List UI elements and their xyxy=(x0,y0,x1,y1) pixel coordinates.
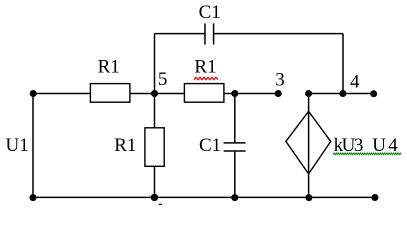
node 0 label (cut off at bottom edge) xyxy=(159,204,162,207)
wire: top branch right corner down to node 4 xyxy=(342,34,344,94)
junction dot: diamond top xyxy=(305,90,312,97)
wire: left branch vertical (U1 port) xyxy=(32,94,34,198)
wire: node 5 up to top branch xyxy=(154,34,156,94)
svg-text:C1: C1 xyxy=(199,2,221,23)
junction dot: C1 tap xyxy=(231,90,238,97)
capacitor C1 (top horizontal) xyxy=(205,23,214,44)
wire: junction down to C1 (vertical) xyxy=(234,94,236,143)
wire: middle row right, diamond top to node 4 to right terminal xyxy=(309,93,374,95)
wire: through dependent source, middle row to bottom rail xyxy=(308,94,310,198)
wire: node 5 down to R1 (vertical) xyxy=(154,94,156,128)
resistor R1 (vertical) xyxy=(145,128,164,167)
wire: top branch, C1 to right corner xyxy=(214,33,343,35)
junction dot: bottom rail / R1 xyxy=(151,194,158,201)
spellcheck squiggle under R1 (middle) xyxy=(194,77,218,80)
junction dot: right terminal (U4 +) xyxy=(370,90,377,97)
junction dot: left bottom (U1 -) xyxy=(30,194,37,201)
svg-text:5: 5 xyxy=(158,69,168,90)
svg-text:4: 4 xyxy=(350,71,360,92)
wire: C1 (vertical) to bottom rail xyxy=(234,152,236,198)
svg-text:U1: U1 xyxy=(6,135,29,156)
svg-text:C1: C1 xyxy=(199,135,221,156)
svg-text:R1: R1 xyxy=(98,56,120,77)
svg-text:3: 3 xyxy=(275,70,285,91)
wire: top branch, left segment to C1 xyxy=(155,33,205,35)
junction dot: node 5 xyxy=(151,90,158,97)
wire: R1 (vertical) to bottom rail xyxy=(154,166,156,197)
svg-text:R1: R1 xyxy=(114,135,136,156)
junction dot: node 4 xyxy=(339,90,346,97)
capacitor C1 (vertical) xyxy=(224,143,246,151)
wire: bottom rail xyxy=(33,196,375,198)
dependent source kU3 (diamond) xyxy=(286,111,331,174)
junction dot: bottom rail / source xyxy=(305,194,312,201)
wire: middle row, R1 to node 5 to R1 (mid) xyxy=(130,93,185,95)
wire: middle row, left node to R1 xyxy=(33,93,90,95)
junction dot: left top (U1 +) xyxy=(30,90,37,97)
resistor R1 (left horizontal) xyxy=(90,84,129,103)
wire: middle row, R1 (mid) to junction to node 3 xyxy=(224,93,278,95)
grammar squiggle under kU3 U4 xyxy=(333,153,401,155)
junction dot: bottom rail / C1 xyxy=(231,194,238,201)
resistor R1 (middle horizontal) xyxy=(184,84,224,103)
junction dot: right bottom terminal (U4 -) xyxy=(371,194,378,201)
junction dot: node 3 terminal xyxy=(275,90,282,97)
svg-text:R1: R1 xyxy=(194,56,216,77)
